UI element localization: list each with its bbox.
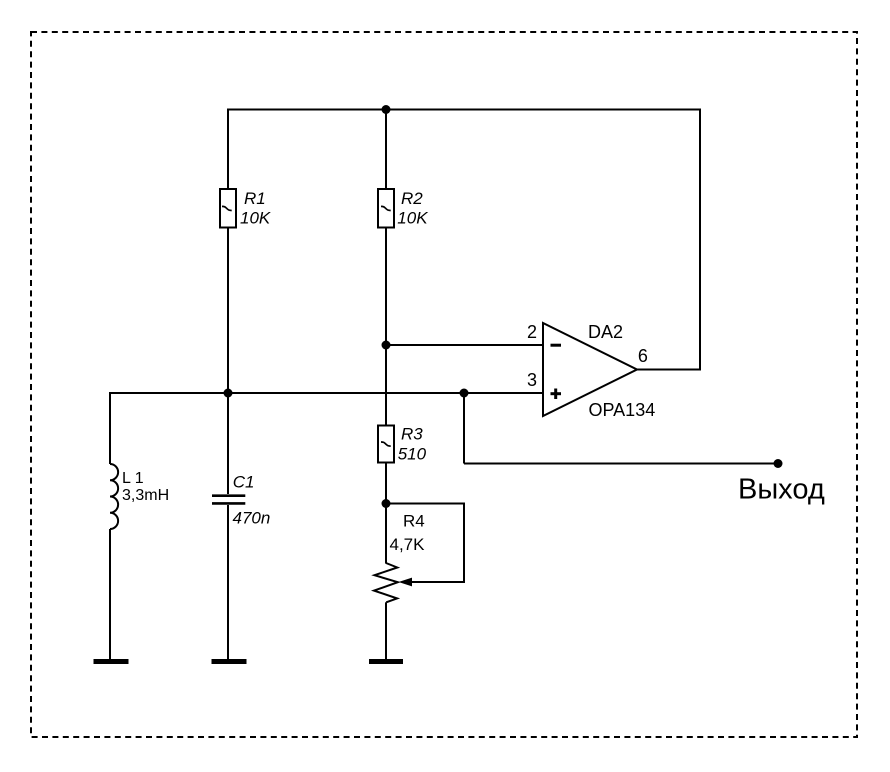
svg-text:R1: R1 — [244, 189, 266, 208]
svg-text:2: 2 — [527, 322, 537, 342]
wire R4 wiper loop — [386, 504, 464, 583]
svg-text:R3: R3 — [401, 425, 423, 444]
inductor L1 — [110, 464, 118, 529]
R4 wiper arrowhead — [399, 578, 413, 587]
wire R1 top lead — [227, 109, 229, 190]
svg-text:DA2: DA2 — [588, 322, 623, 342]
wire op-amp output — [637, 369, 700, 371]
wire output branch down — [463, 393, 465, 464]
op-amp plus input symbol — [551, 389, 562, 400]
junction rail / R1-C1 column — [224, 389, 233, 398]
svg-text:R2: R2 — [401, 189, 423, 208]
svg-text:6: 6 — [638, 346, 648, 366]
wire C1 top lead — [227, 393, 229, 494]
potentiometer R4 zigzag — [374, 563, 398, 602]
wire to output terminal — [464, 463, 778, 465]
junction R3 / R4 — [382, 499, 391, 508]
wire C1 bottom lead — [227, 505, 229, 659]
wire L1 bottom lead — [109, 529, 111, 659]
wire R3 top lead (crossover at rail) — [385, 345, 387, 425]
wire R4 top lead — [385, 504, 387, 564]
wire inverting input (pin 2) — [386, 344, 543, 346]
svg-text:3: 3 — [527, 370, 537, 390]
junction rail / output branch — [460, 389, 469, 398]
resistor R3 — [378, 426, 394, 463]
wire L1 top lead — [109, 392, 111, 464]
svg-text:C1: C1 — [233, 472, 255, 491]
svg-text:10K: 10K — [397, 209, 428, 228]
wire main rail (L1 to pin 3) — [110, 392, 543, 394]
resistor R1 — [220, 189, 236, 228]
op-amp U1 DA2 — [543, 323, 637, 416]
svg-text:R4: R4 — [403, 511, 425, 530]
svg-text:4,7K: 4,7K — [390, 535, 426, 554]
wire R2 bottom lead — [385, 228, 387, 346]
wire R1 bottom lead — [227, 229, 229, 394]
svg-text:Выход: Выход — [738, 473, 825, 505]
ground (R4) — [369, 659, 403, 664]
ground (L1) — [94, 659, 129, 664]
junction R2 / pin 2 — [382, 341, 391, 350]
wire R4 bottom lead — [385, 602, 387, 659]
svg-text:10K: 10K — [240, 209, 271, 228]
svg-text:L 1: L 1 — [122, 470, 144, 487]
ground (C1) — [212, 659, 247, 664]
svg-text:OPA134: OPA134 — [589, 400, 656, 420]
wire R3 bottom lead — [385, 464, 387, 504]
svg-text:470n: 470n — [233, 508, 271, 527]
wire feedback (output to top rail) — [699, 109, 701, 371]
resistor R2 — [378, 189, 394, 228]
wire R2 top lead — [385, 109, 387, 190]
svg-text:3,3mH: 3,3mH — [122, 487, 169, 504]
capacitor C1 — [212, 496, 245, 504]
node Выход (output terminal) — [774, 459, 783, 468]
op-amp minus input symbol — [551, 344, 562, 347]
junction top rail / R2 — [382, 105, 391, 114]
svg-text:510: 510 — [398, 444, 427, 463]
wire top rail — [228, 109, 700, 111]
